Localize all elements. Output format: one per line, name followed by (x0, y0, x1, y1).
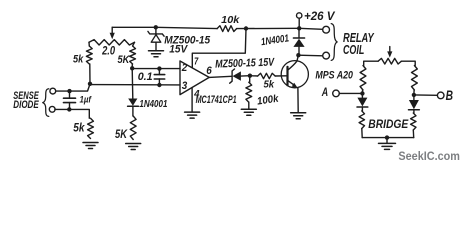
bridge right diode D4 (409, 95, 420, 110)
ground below op-amp (185, 112, 200, 118)
junction B node (412, 93, 416, 97)
junction bridge ground (385, 135, 389, 139)
wire pin2 node down (131, 68, 134, 98)
svg-text:5k: 5k (264, 78, 276, 90)
label R5 5K (115, 127, 128, 141)
label R8 5k (264, 78, 276, 90)
svg-text:7: 7 (194, 56, 198, 67)
ground below Z1 (149, 51, 164, 57)
zener Z2 MZ500-15 (230, 69, 250, 83)
ground below R3 (83, 143, 98, 149)
label R7 100k (256, 93, 280, 108)
svg-text:5K: 5K (118, 54, 131, 66)
svg-text:A: A (321, 86, 328, 99)
label R2 5k (73, 54, 84, 66)
svg-text:5k: 5k (73, 54, 84, 66)
junction C2 top (157, 66, 161, 70)
diode D2 1N4001 (293, 28, 304, 55)
transistor Q1 circle (281, 61, 308, 88)
power +26V terminal (297, 13, 302, 28)
svg-text:MC1741CP1: MC1741CP1 (196, 94, 237, 106)
sense input brace (43, 89, 49, 117)
resistor R8 5k base (250, 73, 287, 78)
bridge right resistor R12 (412, 66, 418, 95)
op-amp pin4 ground line (191, 88, 193, 112)
bridge arrow (387, 47, 392, 58)
svg-text:SeekIC.com: SeekIC.com (398, 151, 460, 163)
op-amp U1 triangle (180, 61, 209, 95)
pot left end to R2 (88, 42, 90, 46)
junction +26 rail (297, 26, 301, 30)
label A (321, 86, 328, 99)
sense terminal top (50, 88, 56, 94)
capacitor C2 0.1 (154, 69, 164, 85)
resistor R6 10k (217, 26, 237, 32)
potentiometer R1 2.0 (89, 40, 135, 45)
junction 1uF top (67, 89, 71, 93)
resistor R3 5k (88, 118, 94, 138)
terminal A (333, 90, 363, 97)
wire rail to relay top (299, 28, 322, 29)
resistor R4 5K right (130, 46, 136, 68)
svg-text:3: 3 (182, 80, 188, 92)
junction pin2 node (130, 66, 134, 70)
ground below bridge (379, 138, 396, 150)
sense terminal bottom (49, 106, 55, 112)
svg-text:MPS A20: MPS A20 (315, 70, 353, 82)
ground below Q1 (291, 113, 306, 119)
diode D1 1N4001 (128, 99, 139, 117)
svg-text:5k: 5k (73, 122, 85, 134)
bridge left resistor R10 (360, 66, 366, 94)
ground below R5 (126, 144, 141, 150)
label R4 5K (118, 54, 131, 66)
node pin3 left junction (88, 82, 92, 86)
junction collector node (296, 53, 300, 57)
bridge left lower resistor R11 (359, 107, 364, 138)
wire 10k to rail right (237, 27, 300, 29)
sense diode label (13, 90, 39, 111)
op-amp pin4 label (193, 89, 200, 100)
wire bottom sense (55, 109, 89, 118)
label R3 5k (73, 122, 85, 134)
label D2 1N4001 (260, 33, 289, 48)
svg-text:1N4001: 1N4001 (139, 99, 167, 110)
transistor Q1 collector (288, 55, 299, 70)
svg-text:10k: 10k (221, 15, 240, 26)
junction zener Z1 (154, 25, 158, 29)
junction rail V+ (244, 26, 248, 30)
transistor Q1 base bar (286, 67, 288, 85)
label Z2 MZ500-15 15V (215, 57, 276, 71)
svg-text:2: 2 (181, 62, 187, 74)
svg-text:2.0: 2.0 (101, 46, 115, 58)
svg-text:1µf: 1µf (80, 95, 92, 106)
svg-text:+26 V: +26 V (304, 9, 336, 23)
op-amp pin3 label (182, 80, 188, 92)
label D1 1N4001 (139, 99, 167, 110)
svg-text:DIODE: DIODE (13, 99, 39, 111)
wire collector to relay bottom (298, 54, 322, 57)
svg-text:0.1: 0.1 (138, 71, 153, 83)
label relay coil (343, 31, 375, 57)
wire top sense (56, 84, 90, 91)
bridge top resistor R9 (364, 58, 416, 65)
bridge right lower resistor R13 (411, 110, 416, 138)
pot wiper arrow (110, 27, 115, 39)
op-amp pin6 label (206, 65, 212, 77)
svg-text:6: 6 (206, 65, 212, 77)
op-amp pin2 label (181, 62, 187, 74)
relay brace (331, 24, 337, 61)
wire pin2 node to opamp (132, 68, 180, 70)
zener Z1 MZ500-15 (148, 27, 164, 50)
junction 1uF bottom (67, 107, 71, 111)
ground below R7 (241, 109, 256, 115)
wire opamp pin7 route (192, 29, 246, 68)
svg-text:MZ500-15 15V: MZ500-15 15V (215, 57, 276, 71)
bridge left diode D3 (357, 93, 368, 107)
capacitor C1 1uF (64, 91, 76, 109)
relay terminal bottom (323, 52, 330, 59)
wire opamp output (209, 76, 231, 77)
wire top rail (112, 27, 217, 28)
relay terminal top (323, 26, 330, 33)
label pot 2.0 (101, 46, 115, 58)
svg-text:BRIDGE: BRIDGE (368, 117, 409, 131)
bridge bottom wire (362, 137, 414, 139)
terminal B (414, 92, 444, 99)
label 1uF (80, 95, 92, 106)
resistor R7 100k (246, 76, 252, 109)
label U1 MC1741CP1 (196, 94, 237, 106)
svg-text:B: B (446, 88, 453, 104)
resistor R5 5K (130, 116, 136, 140)
label C2 0.1 (138, 71, 153, 83)
wire node to pin3 (90, 84, 180, 86)
junction output node (248, 74, 252, 78)
pot right end to R4 (133, 42, 135, 46)
op-amp pin7 label (194, 56, 198, 67)
svg-text:COIL: COIL (343, 43, 364, 57)
junction C2 bottom (157, 83, 161, 87)
transistor Q1 emitter (288, 80, 299, 112)
svg-text:15V: 15V (169, 44, 188, 56)
label B (446, 88, 453, 104)
junction A node (360, 91, 364, 95)
watermark SeekIC.com (398, 151, 460, 163)
resistor R2 5k left (86, 46, 92, 84)
label Q1 MPS A20 (315, 70, 353, 82)
svg-text:5K: 5K (115, 127, 128, 141)
label R6 10k (221, 15, 240, 26)
label Z1 MZ500-15 (164, 34, 211, 55)
label BRIDGE (368, 117, 409, 131)
label +26V (304, 9, 336, 23)
